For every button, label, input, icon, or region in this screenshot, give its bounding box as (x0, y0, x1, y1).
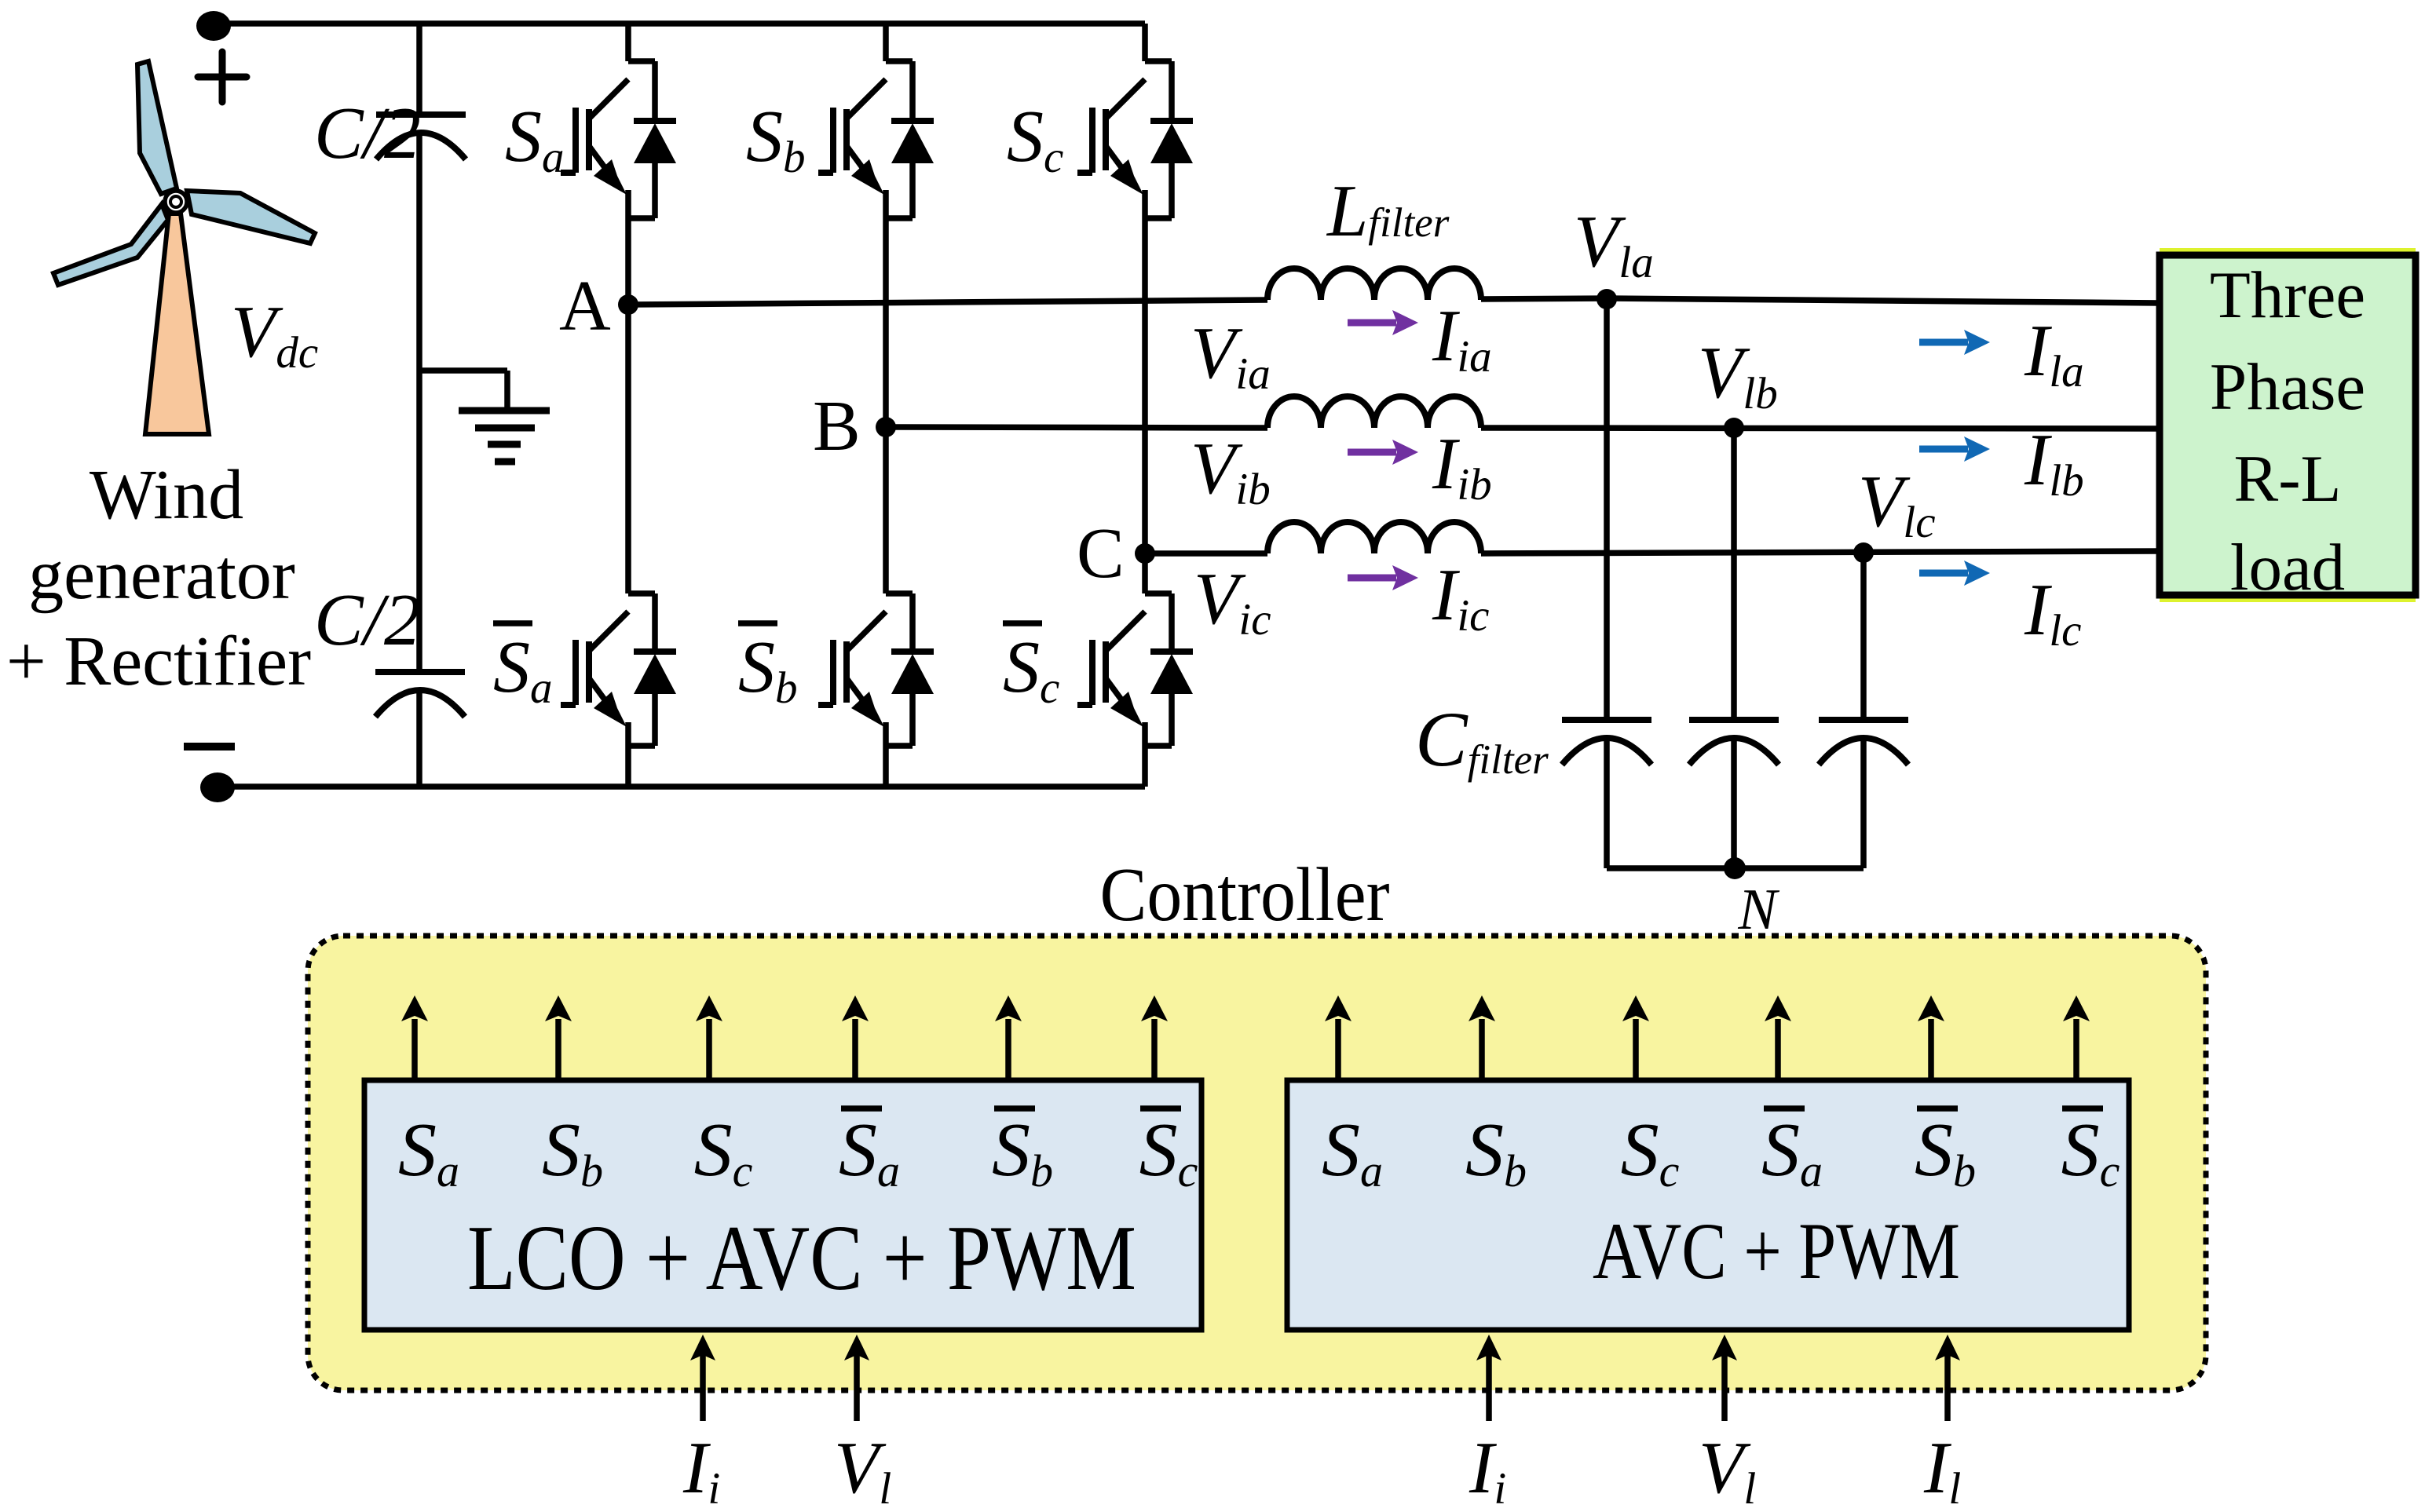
pin label Sc-bar (right block) (2061, 1108, 2120, 1196)
capacitor leg wire (phase b) (1731, 428, 1737, 868)
arrow gate output Sa (right block) (1325, 995, 1351, 1080)
plus sign label (198, 52, 247, 102)
positive DC rail (213, 20, 1145, 27)
svg-text:Phase: Phase (2210, 350, 2365, 424)
current arrow I_la (blue) (1919, 330, 1990, 355)
wind turbine blade (right) (187, 191, 315, 243)
current arrow I_ia (purple) (1348, 310, 1418, 335)
controller block AVC+PWM (1287, 1080, 2129, 1330)
arrow gate output Sb-bar (right block) (1918, 995, 1944, 1080)
capacitor C filter (phase b) (1689, 720, 1779, 765)
arrow gate output Sb (right block) (1469, 995, 1495, 1080)
IGBT Sc collector wire from positive rail (1142, 24, 1148, 61)
arrow gate output Sc-bar (right block) (2063, 995, 2090, 1080)
current arrow I_ic (purple) (1348, 565, 1418, 590)
minus sign label (184, 743, 235, 751)
pin label Sc (right block) (1621, 1108, 1680, 1196)
IGBT S̄b with anti-parallel diode (818, 593, 934, 746)
feedback input arrow Il (right) (1935, 1335, 1960, 1421)
node V_lb junction dot (1724, 418, 1744, 438)
current arrow I_ib (purple) (1348, 440, 1418, 465)
node N junction dot (1724, 857, 1746, 879)
node C junction dot (1135, 543, 1155, 564)
inductor L filter (phase b) (1267, 396, 1481, 428)
three-phase R-L load block (2160, 248, 2416, 602)
label Sb-bar (lower switch) (738, 623, 798, 713)
IGBT Sb with anti-parallel diode (818, 61, 934, 218)
svg-text:C/2: C/2 (314, 93, 421, 174)
ground symbol (459, 411, 550, 462)
pin label Sa (right block) (1322, 1108, 1383, 1196)
ground wire stub (419, 371, 507, 411)
svg-text:A: A (559, 266, 611, 345)
positive terminal dot (196, 11, 231, 41)
IGBT S̄c with anti-parallel diode (1077, 593, 1193, 746)
IGBT Sb emitter wire to phase node (883, 190, 889, 427)
IGBT Sb collector wire from positive rail (883, 24, 889, 61)
svg-text:load: load (2230, 531, 2345, 604)
pin label Sa-bar (left block) (839, 1108, 900, 1196)
negative DC rail (217, 783, 1145, 790)
phase B wire from node B to filter inductor (886, 427, 1267, 428)
svg-text:Wind: Wind (90, 456, 243, 534)
IGBT Sc emitter wire to phase node (1142, 190, 1148, 553)
node V_lc junction dot (1853, 542, 1874, 563)
neutral bus wire (1607, 865, 1864, 871)
wind turbine tower (145, 214, 209, 434)
controller dashed boundary box (308, 936, 2206, 1390)
svg-text:C: C (1077, 513, 1125, 593)
capacitor C filter (phase a) (1562, 720, 1651, 765)
arrow gate output Sc (left block) (696, 995, 722, 1080)
wind turbine blade (up) (137, 61, 177, 194)
IGBT Sa with anti-parallel diode (561, 61, 676, 218)
controller block LCO+AVC+PWM (364, 1080, 1202, 1330)
node A junction dot (618, 294, 638, 315)
svg-text:LCO + AVC + PWM: LCO + AVC + PWM (467, 1206, 1136, 1309)
IGBT S̄b emitter wire to negative rail (883, 722, 889, 787)
arrow gate output Sc (right block) (1622, 995, 1649, 1080)
feedback input arrow Vl (right) (1712, 1335, 1737, 1421)
node B junction dot (876, 417, 896, 437)
pin label Sb (right block) (1465, 1108, 1527, 1196)
pin label Sb (left block) (542, 1108, 603, 1196)
current arrow I_lc (blue) (1919, 561, 1990, 586)
IGBT Sa collector wire from positive rail (625, 24, 631, 61)
IGBT S̄b collector wire from phase node (883, 427, 889, 593)
label Sa-bar (lower switch) (493, 623, 553, 713)
phase A wire from node A to filter inductor (628, 300, 1267, 305)
inductor L filter (phase c) (1267, 522, 1481, 553)
IGBT S̄a with anti-parallel diode (561, 593, 676, 746)
svg-text:generator: generator (28, 536, 295, 614)
IGBT Sa emitter wire to phase node (625, 190, 631, 305)
pin label Sb-bar (right block) (1915, 1108, 1976, 1196)
label Sc-bar (lower switch) (1003, 623, 1059, 713)
feedback input arrow Ii (right) (1476, 1335, 1501, 1421)
feedback input arrow Ii (left) (690, 1335, 715, 1421)
capacitor C/2 (upper) (376, 115, 466, 159)
arrow gate output Sb (left block) (545, 995, 572, 1080)
capacitor C filter (phase c) (1819, 720, 1908, 765)
label Three Phase R-L load (2210, 258, 2365, 604)
pin label Sc (left block) (694, 1108, 753, 1196)
negative terminal dot (200, 772, 235, 802)
pin label Sc-bar (left block) (1139, 1108, 1198, 1196)
inductor L filter (phase a) (1267, 268, 1481, 300)
svg-text:Controller: Controller (1100, 853, 1390, 937)
arrow gate output Sc-bar (left block) (1141, 995, 1168, 1080)
feedback input arrow Vl (left) (844, 1335, 869, 1421)
current arrow I_lb (blue) (1919, 436, 1990, 462)
IGBT S̄c emitter wire to negative rail (1142, 722, 1148, 787)
pin label Sa (left block) (398, 1108, 459, 1196)
svg-text:B: B (813, 386, 861, 466)
wind turbine hub (165, 191, 187, 213)
svg-text:Three: Three (2210, 258, 2365, 332)
IGBT S̄a emitter wire to negative rail (625, 722, 631, 787)
phase A wire from inductor to load (1481, 298, 2160, 303)
arrow gate output Sb-bar (left block) (995, 995, 1022, 1080)
phase C wire from inductor to load (1481, 551, 2160, 553)
phase B wire from inductor to load (1481, 428, 2160, 429)
pin label Sa-bar (right block) (1761, 1108, 1823, 1196)
capacitor leg wire (phase c) (1860, 553, 1867, 868)
capacitor leg wire (phase a) (1604, 299, 1610, 868)
IGBT Sc with anti-parallel diode (1077, 61, 1193, 218)
arrow gate output Sa-bar (right block) (1765, 995, 1791, 1080)
arrow gate output Sa (left block) (401, 995, 428, 1080)
svg-text:+ Rectifier: + Rectifier (6, 623, 311, 700)
node V_la junction dot (1597, 289, 1617, 309)
IGBT S̄a collector wire from phase node (625, 305, 631, 593)
arrow gate output Sa-bar (left block) (842, 995, 869, 1080)
IGBT S̄c collector wire from phase node (1142, 553, 1148, 593)
pin label Sb-bar (left block) (992, 1108, 1053, 1196)
capacitor C/2 (lower) (375, 672, 465, 717)
DC-link bus wire (416, 24, 422, 787)
svg-text:AVC + PWM: AVC + PWM (1593, 1207, 1960, 1296)
svg-text:R-L: R-L (2234, 442, 2342, 516)
phase C wire from node C to filter inductor (1145, 550, 1267, 557)
wind turbine blade (lower-left) (53, 204, 168, 285)
svg-text:N: N (1737, 878, 1779, 942)
svg-text:C/2: C/2 (314, 579, 421, 661)
